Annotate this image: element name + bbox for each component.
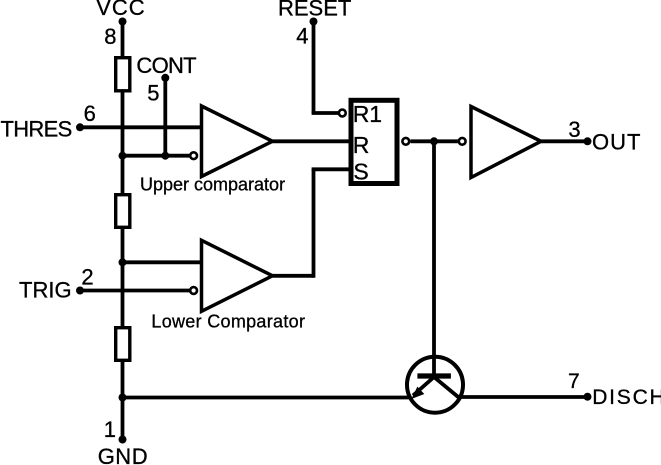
wire RC to GND terminal — [121, 360, 125, 440]
wire CONT down to reference node (crosses THRES wire) — [163, 78, 167, 156]
wire collector inside transistor — [432, 358, 436, 376]
svg-text:DISCH: DISCH — [592, 386, 661, 409]
svg-text:5: 5 — [147, 81, 159, 106]
node C junction dot to transistor base — [430, 137, 438, 145]
svg-text:Lower Comparator: Lower Comparator — [151, 312, 305, 332]
wire RESET to latch R1 input bubble — [312, 111, 338, 115]
svg-text:1: 1 — [104, 417, 116, 442]
wire RESET down — [312, 22, 316, 114]
resistor RC (divider bottom) — [116, 328, 130, 361]
transistor Q1 emitter diagonal — [413, 377, 434, 396]
transistor Q1 body circle — [407, 357, 463, 413]
svg-text:Upper comparator: Upper comparator — [140, 175, 285, 195]
inverting input bubble of output buffer — [459, 138, 466, 145]
wire node B to lower comparator plus input — [123, 260, 202, 264]
svg-text:8: 8 — [104, 24, 116, 49]
wire RB to node B — [121, 227, 125, 328]
pin RESET terminal dot — [310, 18, 318, 26]
pin VCC terminal dot — [119, 18, 127, 26]
node B junction dot on divider — [119, 258, 127, 266]
inverting input bubble of upper comparator — [190, 152, 197, 159]
transistor Q1 emitter arrowhead — [411, 387, 424, 399]
transistor Q1 collector diagonal — [434, 377, 460, 399]
latch U1 box — [351, 100, 397, 183]
svg-text:4: 4 — [296, 23, 308, 48]
wire up to latch S input — [312, 169, 316, 277]
svg-text:RESET: RESET — [278, 0, 351, 20]
svg-text:2: 2 — [81, 264, 93, 289]
node A junction dot on divider — [119, 152, 127, 160]
svg-text:S: S — [353, 159, 368, 185]
svg-text:TRIG: TRIG — [19, 278, 72, 303]
svg-text:OUT: OUT — [592, 130, 641, 155]
pin DISCH terminal dot — [584, 393, 592, 401]
inverting bubble on latch R1 input — [339, 110, 346, 117]
op-amp upper comparator — [202, 106, 273, 177]
wire lower comparator output right — [273, 274, 314, 278]
pin CONT terminal dot — [161, 74, 169, 82]
node D junction dot on GND rail — [119, 394, 127, 402]
svg-text:THRES: THRES — [1, 116, 72, 141]
pin OUT terminal dot — [584, 137, 592, 145]
inverting input bubble of lower comparator — [190, 287, 197, 294]
wire node C down to transistor Q1 base — [432, 141, 436, 376]
svg-text:3: 3 — [568, 117, 580, 142]
op-amp output buffer — [471, 107, 541, 178]
resistor RB (divider middle) — [116, 195, 130, 228]
wire RA to node A (crosses THRES wire) — [121, 91, 125, 195]
transistor Q1 base bar — [417, 373, 451, 378]
svg-text:GND: GND — [98, 444, 148, 465]
wire latch output to output buffer — [411, 139, 459, 143]
wire node A to upper comparator minus input — [123, 154, 192, 158]
wire GND rail to transistor emitter — [123, 396, 409, 400]
inverting bubble on latch output — [402, 138, 409, 145]
wire TRIG to lower comparator minus input (crosses divider) — [80, 289, 191, 293]
wire VCC dot to divider resistor RA — [121, 22, 125, 59]
svg-text:6: 6 — [84, 101, 96, 126]
op-amp lower comparator — [202, 240, 273, 311]
wire into latch S input — [312, 167, 351, 171]
pin TRIG terminal dot — [76, 287, 84, 295]
svg-text:VCC: VCC — [96, 0, 145, 20]
wire buffer output to OUT terminal — [541, 139, 588, 143]
wire THRES to upper comparator plus input — [80, 125, 201, 129]
svg-text:R: R — [353, 132, 370, 158]
svg-text:7: 7 — [568, 370, 580, 393]
resistor RA (divider top) — [116, 58, 130, 91]
wire upper comparator output to latch R input — [273, 139, 352, 143]
pin THRES terminal dot — [76, 123, 84, 131]
pin GND terminal dot — [119, 436, 127, 444]
junction dot CONT on reference wire — [161, 152, 169, 160]
wire transistor to DISCH terminal — [462, 395, 588, 399]
svg-text:R1: R1 — [353, 101, 382, 127]
